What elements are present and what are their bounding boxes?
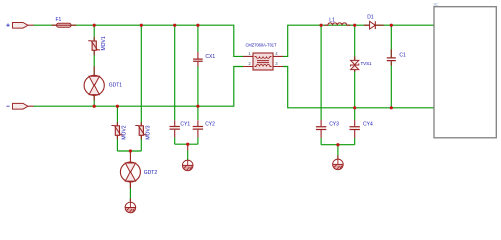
svg-text:CMZ7060A-T01T: CMZ7060A-T01T xyxy=(246,42,278,47)
svg-text:CX1: CX1 xyxy=(205,54,215,60)
svg-text:MOV1: MOV1 xyxy=(101,36,107,50)
svg-text:C1: C1 xyxy=(399,53,406,59)
svg-text:IC: IC xyxy=(434,2,439,7)
svg-text:CY1: CY1 xyxy=(180,122,190,128)
svg-text:GDT2: GDT2 xyxy=(144,170,158,176)
svg-text:D1: D1 xyxy=(367,14,374,20)
svg-text:CY4: CY4 xyxy=(363,122,373,128)
svg-text:CY2: CY2 xyxy=(205,122,215,128)
svg-text:MOV2: MOV2 xyxy=(121,125,127,139)
svg-text:CY3: CY3 xyxy=(329,122,339,128)
svg-text:F1: F1 xyxy=(56,17,62,23)
svg-text:MOV3: MOV3 xyxy=(145,125,151,139)
svg-text:L1: L1 xyxy=(329,17,335,23)
svg-text:GDT1: GDT1 xyxy=(109,83,123,89)
svg-text:TVS1: TVS1 xyxy=(361,61,372,66)
